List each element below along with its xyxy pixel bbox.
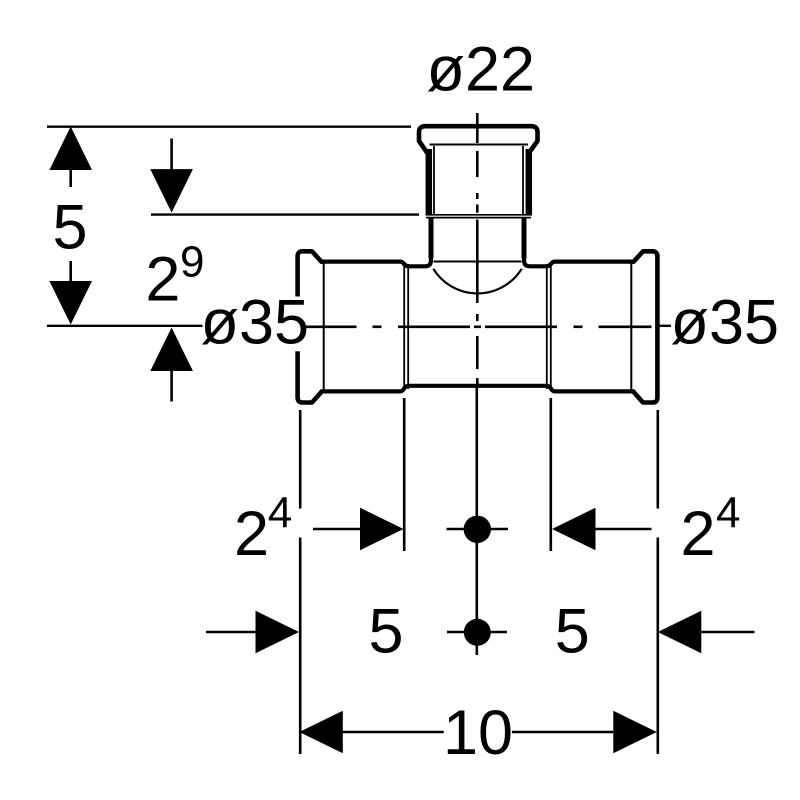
branch socket left wall: [426, 149, 433, 216]
dimension 2.4 left tail line: [313, 528, 365, 531]
right bead extension line (with gap at row-1 dimension): [656, 410, 659, 509]
dimension 10 left line: [343, 731, 444, 734]
row-1 center dash through dot: [447, 528, 509, 531]
right press bead of run socket: [634, 251, 658, 402]
dimension 5 stem lower: [69, 261, 72, 281]
branch socket inner wall lines: [433, 146, 435, 214]
row-2 right arrow (points left): [658, 611, 702, 654]
dimension 5 down arrow: [49, 281, 92, 325]
branch socket right wall: [526, 149, 533, 216]
vertical centerline of branch (dash-dot): [476, 113, 479, 385]
svg-text:5: 5: [368, 597, 403, 667]
svg-text:9: 9: [180, 238, 204, 287]
extension line B (run centerline level, left): [47, 325, 203, 327]
dimension 2.9 lower stem: [170, 371, 173, 402]
left press bead of run socket: [298, 251, 322, 402]
center solid extension line: [475, 387, 478, 656]
dimension 10 right line: [512, 731, 613, 734]
svg-text:10: 10: [443, 698, 513, 768]
svg-text:ø22: ø22: [427, 35, 536, 105]
right seam extension line: [549, 398, 552, 551]
dimension 5 (vertical left): up arrow: [49, 127, 92, 171]
branch plain tube walls below seam: [429, 219, 434, 259]
left seam extension line: [403, 398, 406, 551]
svg-text:5: 5: [555, 597, 590, 667]
branch press bead (top): [419, 126, 538, 153]
svg-text:4: 4: [716, 489, 740, 538]
dimension 2.9 (vertical): upper stem: [170, 139, 173, 170]
inner fillet arc between branch and run: [433, 269, 521, 294]
svg-text:2: 2: [145, 245, 180, 315]
dimension 10 left arrow (points left): [299, 711, 343, 754]
svg-text:ø35: ø35: [201, 288, 310, 358]
svg-text:2: 2: [681, 499, 716, 569]
dimension 2.4 right arrow (points left): [552, 508, 596, 551]
row-2 left arrow (points right): [256, 611, 300, 654]
white knockout behind left ø35 label: [264, 297, 303, 352]
row-2 center dash through dot: [447, 631, 507, 634]
left bead inner boundary line: [323, 262, 325, 391]
left bead extension line (with gap at row-1 dimension): [299, 410, 302, 509]
svg-text:5: 5: [52, 193, 87, 263]
extension line A (top of branch level): [47, 125, 411, 127]
svg-text:ø35: ø35: [671, 288, 780, 358]
row-2 center dot: [464, 619, 491, 646]
dimension 2.4 right tail line: [596, 528, 652, 531]
row-2 right tail line: [701, 631, 754, 634]
tee fitting outline: run top profile right (body top + step + socket top + branch lower-right wall): [524, 219, 633, 266]
tee fitting outline: run top profile left (socket top + step + body top + branch lower-left wall): [322, 219, 431, 266]
dimension 2.4 left arrow (points right): [360, 508, 404, 551]
row-2 left tail line: [206, 631, 256, 634]
svg-text:4: 4: [268, 489, 292, 538]
branch bead inner boundary line: [430, 144, 529, 146]
extension line C (branch insertion depth level): [151, 213, 419, 215]
horizontal centerline of run (dash-dot): [304, 325, 652, 328]
right socket insertion-depth seam (double lines): [546, 264, 548, 389]
saddle hidden line across branch opening: [434, 261, 522, 263]
branch insertion-depth seam (double lines): [426, 214, 531, 216]
dimension 2.9 up arrow: [150, 328, 193, 372]
left socket insertion-depth seam (double lines): [403, 264, 405, 389]
dimension 10 right arrow (points right): [613, 711, 657, 754]
tee fitting outline: run bottom profile (socket bottoms + steps + body bottom): [322, 386, 634, 392]
dimension 2.9 down arrow: [150, 169, 193, 213]
right bead inner boundary line: [630, 262, 632, 391]
row-1 center dot: [464, 516, 491, 543]
svg-text:2: 2: [234, 499, 269, 569]
dimension 5 stem upper: [69, 170, 72, 187]
extension line B right stub: [660, 325, 672, 327]
